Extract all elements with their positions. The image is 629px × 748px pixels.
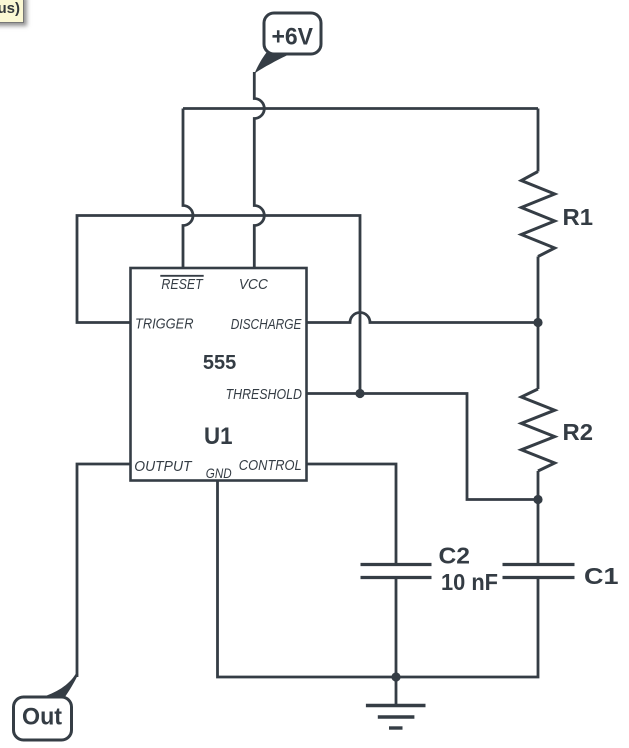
svg-text:RESET: RESET	[161, 276, 204, 293]
svg-text:C2: C2	[439, 543, 471, 569]
svg-text:C1: C1	[584, 563, 619, 589]
svg-text:VCC: VCC	[239, 276, 268, 293]
svg-text:TRIGGER: TRIGGER	[135, 316, 194, 333]
svg-text:OUTPUT: OUTPUT	[134, 458, 193, 475]
svg-text:R2: R2	[563, 419, 594, 445]
svg-text:R1: R1	[563, 204, 594, 230]
svg-text:555: 555	[203, 352, 236, 374]
svg-text:U1: U1	[204, 423, 233, 450]
svg-text:CONTROL: CONTROL	[239, 457, 302, 474]
svg-text:+6V: +6V	[272, 24, 314, 51]
svg-text:Out: Out	[22, 704, 62, 731]
svg-text:10 nF: 10 nF	[441, 569, 498, 595]
svg-text:DISCHARGE: DISCHARGE	[231, 316, 303, 333]
svg-text:THRESHOLD: THRESHOLD	[226, 386, 302, 403]
svg-text:GND: GND	[206, 465, 232, 481]
